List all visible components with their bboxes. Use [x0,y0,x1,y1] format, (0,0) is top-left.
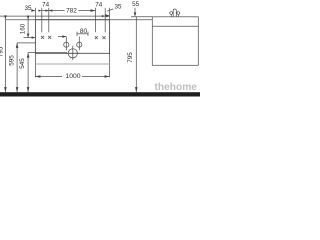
dimension 35 left [24,5,35,12]
faucet on side view [170,9,180,17]
svg-text:795: 795 [0,46,5,57]
wire: upper construction line [0,15,110,17]
dimension 160 [19,16,35,39]
dimension 74 left [38,2,49,12]
svg-text:55: 55 [132,1,140,8]
dimension 80 [77,28,88,36]
svg-text:74: 74 [42,2,50,9]
front view basin rect [35,20,109,54]
svg-text:782: 782 [66,7,77,14]
svg-text:35: 35 [24,5,32,12]
svg-text:595: 595 [8,55,15,66]
wire: basin top reference line [5,19,153,21]
drain hole [66,46,80,60]
front view cabinet [35,53,109,77]
dimension 782 [49,7,96,14]
dimension 35 right [106,3,122,17]
svg-text:545: 545 [19,58,26,69]
dimension 795 right [127,17,138,92]
dimension 595 [8,43,35,92]
dimension 795 left [0,15,7,92]
dimension 545 [19,53,67,93]
svg-text:1000: 1000 [65,73,80,80]
svg-text:74: 74 [95,1,103,8]
floor bar [0,92,200,96]
side view box [152,17,198,66]
faucet hole right [77,37,82,51]
dimension 55 [131,1,152,17]
svg-text:795: 795 [127,52,134,63]
dimension 1000 [35,73,109,80]
faucet hole left [64,37,69,51]
svg-text:160: 160 [19,23,26,34]
screw marks x [41,36,105,39]
leader to screws [58,35,66,38]
svg-text:35: 35 [114,3,122,10]
svg-text:thehome: thehome [155,82,198,93]
top dim ticks [35,8,109,33]
dimension 74 right [95,1,109,17]
watermark thehome [155,82,198,93]
side view worktop bottom line [152,25,198,27]
